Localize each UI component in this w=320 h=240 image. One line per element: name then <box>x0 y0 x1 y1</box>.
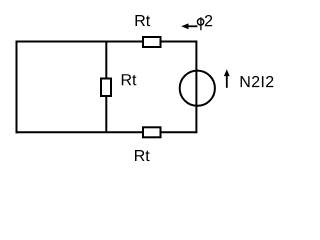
wire middle vertical <box>105 42 107 133</box>
label N2I2 <box>241 76 274 87</box>
label phi2 : phi drawn as ellipse+stem, then digit 2 <box>197 15 212 30</box>
label Rt middle <box>122 74 137 85</box>
arrow phi2 (points left) <box>181 23 197 29</box>
label Rt top <box>136 15 151 26</box>
resistor Rt middle <box>101 79 111 97</box>
resistor Rt bottom <box>143 127 161 137</box>
wire bottom <box>16 131 197 133</box>
wire right vertical <box>195 41 197 134</box>
wire left <box>16 41 18 134</box>
arrow N2I2 (points up) <box>224 69 230 88</box>
resistor Rt top <box>143 37 161 47</box>
current source U1 circle <box>180 71 215 106</box>
label Rt bottom <box>135 150 150 161</box>
wire top <box>16 41 197 43</box>
